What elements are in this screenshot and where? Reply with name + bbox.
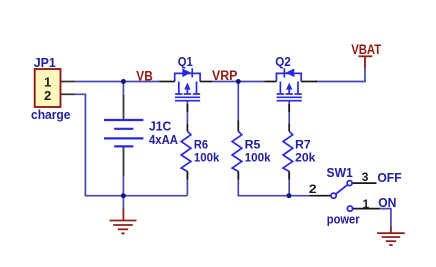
label SW1 — [327, 165, 353, 180]
label R6 — [194, 137, 208, 151]
Q1 body diode — [182, 68, 193, 77]
Q1 source/drain legs — [178, 82, 180, 94]
value 100k (R6) — [194, 151, 220, 165]
switch SW1 contacts and lever — [331, 181, 353, 212]
switch SW1 pin leads — [309, 183, 379, 209]
wire left ground stem — [122, 196, 124, 210]
svg-text:OFF: OFF — [377, 170, 401, 185]
Q2 body diode loop — [276, 73, 301, 81]
resistor R5 — [232, 131, 242, 171]
net label VB — [136, 68, 153, 83]
Q1 bulk arrow line — [186, 89, 188, 93]
pin number 3 (SW1) — [362, 170, 369, 184]
svg-text:VBAT: VBAT — [351, 42, 382, 57]
wire net VB top rail from JP1 pin1 to Q1 — [75, 81, 160, 83]
svg-text:Q1: Q1 — [178, 54, 193, 69]
svg-text:power: power — [327, 211, 360, 226]
label ON — [378, 195, 396, 210]
svg-text:100k: 100k — [245, 151, 271, 165]
battery J1C pins — [123, 95, 125, 176]
junction node R7 bottom — [287, 193, 292, 198]
svg-text:charge: charge — [31, 107, 71, 122]
label R5 — [245, 137, 261, 151]
svg-text:R7: R7 — [295, 137, 311, 151]
wire Q2 gate to R7 — [288, 101, 290, 196]
resistor R6 — [181, 131, 191, 171]
svg-text:VRP: VRP — [212, 68, 237, 83]
junction node VB — [121, 79, 126, 84]
wire battery bottom stub — [122, 175, 124, 196]
pin number 1 (SW1) — [363, 197, 370, 211]
wire R5 from VRP junction down and bottom wire to switch — [238, 82, 309, 196]
Q1 bulk arrowhead — [184, 83, 190, 90]
label R7 — [295, 137, 311, 151]
svg-text:R5: R5 — [245, 137, 261, 151]
Q1 pins (source, drain, gate) — [160, 82, 212, 113]
svg-text:VB: VB — [136, 68, 153, 83]
pin 2 of JP1 — [61, 93, 75, 95]
connector JP1 — [35, 69, 61, 107]
value 100k (R5) — [245, 151, 271, 165]
label 4xAA — [149, 132, 179, 147]
Q1 body diode loop — [175, 73, 200, 81]
label JP1 — [34, 55, 56, 70]
svg-text:2: 2 — [44, 88, 51, 103]
svg-text:SW1: SW1 — [327, 165, 353, 180]
wire battery top stub — [122, 82, 124, 96]
label Q2 — [275, 54, 291, 69]
wire net VRP between Q1 and Q2 — [212, 81, 265, 83]
svg-text:1: 1 — [363, 197, 370, 211]
svg-text:Q2: Q2 — [275, 54, 291, 69]
pin number 2 (JP1) — [44, 88, 51, 103]
wire from JP1 pin2 down and along bottom to R6 — [75, 94, 187, 195]
R5 pins — [237, 121, 239, 180]
Q2 source/drain legs — [279, 82, 281, 94]
label charge — [31, 107, 71, 122]
pin number 2 (SW1) — [309, 182, 317, 196]
label Q1 — [178, 54, 193, 69]
R6 pins — [186, 123, 188, 179]
junction node battery bottom — [121, 193, 126, 198]
wire Q1 gate to R6 — [186, 101, 188, 196]
resistor R7 — [283, 131, 293, 171]
transistor Q1 P-MOSFET — [175, 73, 201, 100]
junction node VRP — [236, 79, 241, 84]
transistor Q2 P-MOSFET — [276, 73, 301, 100]
label OFF — [377, 170, 401, 185]
value 20k (R7) — [295, 151, 316, 165]
net label VRP — [212, 68, 237, 83]
svg-text:2: 2 — [309, 182, 317, 196]
Q2 bulk arrowhead — [286, 83, 292, 90]
svg-text:JP1: JP1 — [34, 55, 56, 70]
Q1 channel and gate plates — [175, 96, 200, 98]
pin number 1 (JP1) — [44, 75, 51, 90]
wire net VBAT from Q2 to VBAT symbol — [316, 68, 365, 82]
svg-text:ON: ON — [378, 195, 396, 210]
svg-text:4xAA: 4xAA — [149, 132, 179, 147]
R7 pins — [288, 123, 290, 179]
battery J1C plates — [104, 120, 143, 146]
Q2 pins (source, drain, gate) — [265, 82, 318, 113]
Q2 body diode (mirrored) — [284, 68, 295, 77]
ground symbol left — [110, 209, 137, 234]
svg-text:100k: 100k — [194, 151, 220, 165]
svg-text:R6: R6 — [194, 137, 208, 151]
svg-text:3: 3 — [362, 170, 369, 184]
svg-text:20k: 20k — [295, 151, 316, 165]
Q2 channel and gate plates — [277, 96, 302, 98]
power symbol VBAT — [359, 56, 373, 68]
pin 1 of JP1 — [61, 81, 75, 83]
wire switch pin1 to ground — [380, 209, 391, 228]
label power — [327, 211, 360, 226]
label J1C — [149, 118, 172, 133]
ground symbol right — [377, 227, 405, 245]
Q2 bulk arrow line — [288, 89, 290, 93]
net label VBAT — [351, 42, 382, 57]
